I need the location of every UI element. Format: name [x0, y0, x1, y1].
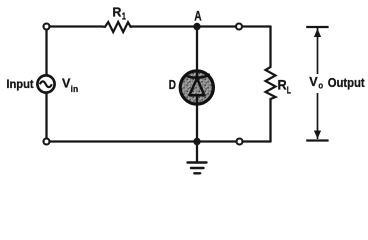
- output dimension line: [306, 27, 328, 141]
- svg-text:V: V: [309, 74, 318, 89]
- inner stub bottom: [196, 95, 198, 105]
- triangle: [189, 78, 204, 95]
- node A junction dot: [193, 23, 200, 30]
- zener diode D: [180, 71, 213, 105]
- AC source Vin: [37, 75, 54, 92]
- svg-text:R: R: [278, 76, 287, 92]
- svg-text:in: in: [71, 84, 79, 95]
- zener bar: [186, 75, 209, 78]
- wire middle branch upper: [196, 27, 198, 72]
- wire right branch upper: [269, 27, 271, 66]
- svg-text:D: D: [169, 77, 176, 92]
- svg-text:A: A: [194, 8, 202, 23]
- wire right branch lower: [269, 99, 271, 142]
- svg-text:Input: Input: [6, 77, 33, 91]
- terminal top-mid-right: [236, 24, 242, 30]
- terminal bottom-left: [44, 139, 50, 145]
- resistor RL: [266, 66, 276, 100]
- wire top-left to R1: [47, 25, 103, 27]
- bottom junction dot: [193, 138, 200, 145]
- wire bottom: [47, 140, 271, 142]
- svg-text:Output: Output: [328, 75, 366, 90]
- svg-text:V: V: [62, 76, 71, 91]
- inner stub top: [196, 71, 198, 78]
- ground stem: [196, 142, 198, 162]
- svg-text:R: R: [112, 5, 121, 20]
- resistor R1: [102, 22, 131, 32]
- svg-text:o: o: [318, 81, 323, 92]
- svg-text:L: L: [287, 86, 291, 97]
- svg-text:1: 1: [122, 12, 126, 23]
- terminal top-left: [44, 24, 50, 30]
- wire middle branch lower: [196, 104, 198, 142]
- terminal bottom-mid-right: [237, 139, 243, 145]
- wire left branch lower: [45, 94, 47, 142]
- ground bars: [188, 163, 207, 174]
- wire R1 to top-right corner: [131, 25, 271, 27]
- wire left branch upper: [45, 27, 47, 75]
